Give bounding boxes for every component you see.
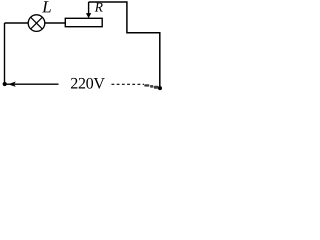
label L [42,1,51,12]
resistor R [65,18,102,26]
lamp L [28,15,45,32]
wire [45,22,66,24]
watermark blob [144,84,158,88]
label R [95,3,103,12]
label 220V [71,78,105,89]
wire (dashed) [112,83,145,85]
wire (bottom) [5,83,59,85]
wire [5,22,29,24]
node A [3,82,7,86]
node B [158,86,162,90]
wiper arrowhead [86,13,91,18]
current arrow [8,82,16,87]
wire (wiper stem) [88,2,90,14]
wire (left vertical) [4,23,6,84]
wire (top) [89,2,160,87]
